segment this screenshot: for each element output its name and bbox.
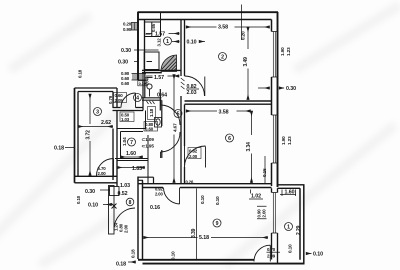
svg-text:4: 4 [136, 96, 139, 102]
svg-text:1: 1 [166, 39, 169, 45]
dim 3.72 room3 vertical [89, 94, 91, 124]
wall room4 bottom / room3 top junction [113, 108, 144, 111]
room label 6 [226, 134, 234, 142]
wall bath right [160, 89, 162, 158]
room label 9 [213, 219, 221, 227]
dim 1.57 lower [146, 75, 180, 77]
room label 2 [219, 53, 227, 61]
svg-text:0.10: 0.10 [215, 196, 220, 205]
boxed 0.30 small [138, 81, 146, 86]
dim 1.57 upper [146, 33, 180, 35]
dim ticks annex 0.90 [251, 190, 296, 219]
label 0.82 2.00 room6 door [188, 148, 201, 160]
dim 1.60 annex [280, 194, 296, 196]
svg-text:0.10: 0.10 [313, 252, 323, 258]
dim 0.82 door label line [186, 88, 199, 90]
room9 left wall upper jog [138, 177, 154, 184]
room label 5 [174, 110, 182, 118]
svg-text:0.82: 0.82 [189, 149, 198, 154]
room7 right wall [146, 111, 149, 184]
dim 0.30 right wall [258, 87, 284, 89]
vent ticks [147, 101, 155, 104]
svg-text:0.30: 0.30 [139, 81, 146, 86]
dim 0.15 room6 [264, 156, 266, 184]
label 0.60 2.05 boxed [114, 93, 127, 104]
svg-text:8: 8 [129, 200, 132, 206]
svg-text:3: 3 [96, 110, 99, 116]
dim 1.02 annex [249, 198, 263, 200]
door room6 to room9 [164, 188, 180, 205]
room label 3 [94, 108, 102, 116]
svg-text:1.03: 1.03 [120, 183, 130, 189]
door room9 balcony [254, 245, 270, 261]
svg-text:1.04: 1.04 [122, 137, 127, 146]
svg-text:2.62: 2.62 [101, 120, 111, 126]
annex right wall [300, 185, 304, 264]
svg-text:0.65: 0.65 [151, 23, 156, 32]
room9 left wall [138, 177, 143, 260]
room3 top wall [75, 88, 118, 92]
svg-text:3.58: 3.58 [219, 109, 229, 115]
svg-text:1.90: 1.90 [281, 136, 286, 145]
svg-text:⊂1.09: ⊂1.09 [142, 137, 155, 142]
svg-text:0.10: 0.10 [171, 251, 176, 260]
label 1.18 boxed [148, 107, 156, 120]
svg-text:3.49: 3.49 [243, 57, 249, 67]
door room3 lower [96, 158, 113, 176]
svg-text:2.00: 2.00 [262, 209, 267, 218]
annex window [272, 193, 278, 234]
svg-text:0.30: 0.30 [286, 86, 296, 92]
room3 block left wall [75, 88, 79, 183]
svg-text:1.02: 1.02 [251, 194, 261, 200]
room8 left thin wall [109, 186, 120, 235]
svg-text:1.23: 1.23 [286, 47, 291, 56]
svg-text:0.15: 0.15 [262, 168, 267, 177]
wc fixture circle [147, 78, 153, 97]
svg-text:0.10: 0.10 [200, 195, 205, 204]
svg-text:3.39: 3.39 [191, 228, 197, 238]
dim 1.85 corridor [117, 167, 145, 169]
door hall to room6 [185, 146, 206, 168]
svg-text:1: 1 [287, 225, 290, 231]
dim 0.10 below room3 [103, 204, 112, 206]
dim 4.67 hall vertical [173, 75, 175, 113]
svg-text:1.23: 1.23 [287, 136, 292, 145]
svg-text:0.64: 0.64 [157, 93, 167, 99]
svg-text:5: 5 [177, 112, 180, 118]
room7 walls [115, 129, 148, 161]
svg-text:4.67: 4.67 [173, 123, 178, 132]
svg-text:0.16: 0.16 [150, 205, 160, 211]
shaft boxes top [145, 12, 161, 37]
door jamb hatch [181, 78, 185, 89]
wall central left column [143, 73, 145, 111]
svg-text:5.18: 5.18 [199, 235, 209, 241]
window band below entry [132, 74, 147, 81]
svg-text:2.00: 2.00 [155, 192, 164, 197]
vestibule bottom wall [142, 70, 181, 72]
svg-text:2.00: 2.00 [98, 171, 107, 176]
dim 0.18 left [65, 147, 74, 149]
svg-text:1.90: 1.90 [280, 47, 285, 56]
dim 0.30 left entry a [134, 49, 159, 51]
svg-text:0.18: 0.18 [116, 262, 126, 268]
dim 0.10 room2 [172, 41, 180, 43]
window right upper [272, 32, 278, 78]
svg-text:2.03: 2.03 [187, 90, 197, 96]
room label 8 [126, 198, 134, 206]
svg-text:7: 7 [130, 140, 133, 146]
window right lower [272, 115, 278, 163]
wall hall-room2 upper [181, 20, 185, 77]
entry door hatched [161, 55, 177, 72]
dim 3.58 room6 [186, 110, 217, 112]
svg-text:9: 9 [216, 221, 219, 227]
svg-text:0.79: 0.79 [108, 95, 113, 104]
dim 1.60 room7 [121, 156, 144, 158]
svg-text:0.70: 0.70 [267, 247, 276, 252]
svg-text:2: 2 [221, 55, 224, 61]
bath doors stacked [161, 100, 181, 158]
svg-text:0.30: 0.30 [118, 60, 128, 66]
door room4 [121, 93, 136, 108]
svg-text:0.10: 0.10 [88, 203, 98, 209]
room label 7 [128, 138, 136, 146]
svg-text:3.58: 3.58 [218, 25, 228, 31]
svg-text:0.10: 0.10 [187, 40, 197, 46]
svg-text:0.26: 0.26 [186, 180, 195, 185]
svg-text:0.20: 0.20 [123, 22, 132, 27]
svg-text:1.18: 1.18 [149, 108, 154, 117]
svg-text:⊂1.95: ⊂1.95 [142, 144, 155, 149]
svg-text:6: 6 [228, 136, 231, 142]
svg-text:2.05: 2.05 [115, 98, 124, 103]
label 0.80 0.60 boxed [144, 122, 158, 132]
dim 0.30 below room3 [100, 189, 110, 191]
dim 3.39 room9 vertical [196, 189, 198, 260]
svg-text:0.10: 0.10 [288, 244, 293, 253]
wall bath north [142, 98, 162, 100]
svg-text:2.29: 2.29 [296, 225, 302, 235]
svg-text:3.12: 3.12 [157, 38, 162, 47]
room9 top wall [138, 184, 272, 188]
annex top wall [278, 185, 305, 189]
room label 4 [134, 94, 142, 102]
dim 0.18 room9 left [128, 261, 136, 263]
svg-text:0.30: 0.30 [121, 48, 131, 54]
wall between room2 and room6 [185, 101, 272, 104]
wall right outer [272, 12, 278, 187]
svg-text:0.60: 0.60 [121, 81, 130, 86]
dim 3.34 room6 vertical [251, 111, 253, 135]
window small left wall [131, 23, 138, 31]
room3 bottom wall [75, 176, 118, 183]
svg-text:1.57: 1.57 [155, 32, 165, 38]
svg-text:1.60: 1.60 [126, 151, 136, 157]
dim 3.49 room2 vertical [247, 27, 249, 49]
svg-text:0.10: 0.10 [76, 195, 81, 204]
svg-text:1.60: 1.60 [285, 190, 295, 196]
label 0.50 1.03 boxed [120, 112, 134, 122]
room label 1 upper [164, 37, 172, 45]
wall left of entry block [138, 12, 145, 80]
svg-text:0.90: 0.90 [123, 27, 132, 32]
room label 1 annex [285, 223, 293, 231]
svg-text:1.85: 1.85 [132, 166, 142, 172]
svg-text:1.57: 1.57 [154, 75, 164, 81]
wall top outer [138, 12, 279, 19]
annex left wall piers [272, 188, 278, 263]
dim 0.10 annex right [306, 253, 312, 255]
bottom wall main [138, 260, 305, 264]
wall hall-rooms right lower [181, 96, 185, 184]
svg-text:3.72: 3.72 [86, 130, 92, 140]
svg-text:0.18: 0.18 [54, 146, 64, 152]
dim 5.18 room9 [144, 237, 198, 239]
door room8 [112, 204, 136, 230]
svg-text:1.03: 1.03 [121, 117, 130, 122]
svg-text:2.00: 2.00 [124, 224, 129, 233]
dim 2.62 room3 [78, 126, 113, 128]
svg-text:3.34: 3.34 [246, 142, 252, 152]
dim 0.70 label line [267, 251, 281, 253]
svg-text:0.18: 0.18 [78, 69, 83, 78]
dim 3.58 room2 top [186, 5, 270, 41]
svg-text:0.52: 0.52 [118, 191, 128, 197]
svg-text:0.60: 0.60 [145, 127, 154, 132]
svg-text:2.09: 2.09 [267, 254, 276, 259]
svg-text:0.20: 0.20 [241, 31, 246, 40]
door hall to room2 [185, 76, 205, 96]
svg-text:0.18: 0.18 [131, 249, 136, 258]
svg-text:0.30: 0.30 [85, 189, 95, 195]
wc fixtures [155, 118, 162, 128]
room3 right wall [113, 88, 117, 187]
svg-text:2.00: 2.00 [189, 154, 198, 159]
closet box [144, 52, 159, 70]
dim 0.30 left entry b [134, 61, 138, 63]
